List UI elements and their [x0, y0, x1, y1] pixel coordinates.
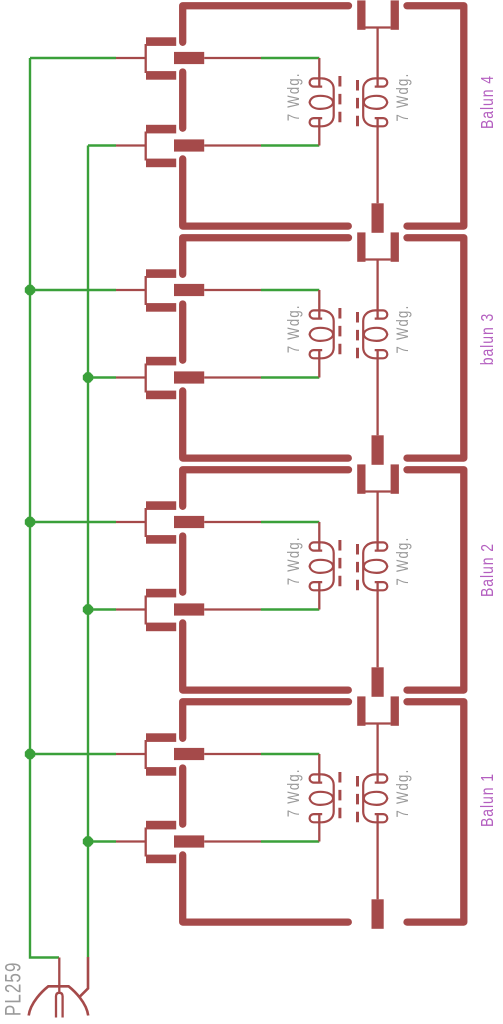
- svg-text:7 Wdg.: 7 Wdg.: [284, 536, 303, 585]
- Balun 4: tap connector 1 bracket bottom bar: [146, 71, 176, 80]
- Balun 1: transformer core dashed line right: [356, 776, 359, 823]
- Balun 4: net wire connector 1 to primary winding (green): [261, 57, 319, 59]
- Balun 2: primary winding bottom pin wire: [318, 583, 320, 610]
- Balun 2: wire from secondary winding to output tab: [376, 583, 378, 668]
- Balun 2: net wire from trunk to tap connector 1 (green): [30, 521, 116, 523]
- balun 3: tap connector 1 left pin wire: [116, 289, 146, 291]
- Balun 1: frame bus right side (top-right, right, bottom-right): [407, 702, 464, 922]
- Balun 2: tap connector 1 male tab: [174, 516, 204, 528]
- Balun 2: input socket bracket right bar (top connector): [391, 464, 399, 493]
- balun 3: tap connector 2 bracket top bar: [146, 357, 176, 366]
- Balun 1: input socket bracket base line: [366, 722, 391, 724]
- balun 3: tap connector 2 left pin wire: [116, 376, 146, 378]
- Balun 2: frame bus right side (top-right, right, bottom-right): [407, 470, 464, 690]
- balun 3: frame bus left lower segment and bottom-left: [183, 391, 349, 458]
- Balun 1: net wire from trunk to tap connector 2 (green): [88, 840, 116, 842]
- balun 3: tap connector 2 right pin wire: [204, 376, 261, 378]
- Balun 2: tap connector 2 left pin wire: [116, 608, 146, 610]
- balun 3: transformer core dashed line right: [356, 312, 359, 359]
- balun 3: output male tab (bottom connector): [372, 435, 384, 465]
- Balun 4: frame bus top-left and left side upper segment: [183, 6, 349, 43]
- Balun 1: tap connector 1 bracket bottom bar: [146, 767, 176, 776]
- Balun 4: transformer primary winding loops: [310, 78, 334, 126]
- svg-text:7 Wdg.: 7 Wdg.: [393, 305, 412, 354]
- Balun 4: net wire from trunk to tap connector 1 (green): [30, 57, 116, 59]
- balun 3: tap connector 1 male tab: [174, 284, 204, 296]
- Balun 2: transformer core dashed line right: [356, 544, 359, 591]
- Balun 1: tap connector 1 right pin wire: [204, 753, 261, 755]
- junction on left trunk at Balun 1 upper tap: [25, 749, 35, 759]
- Balun 1: transformer secondary winding loops: [363, 774, 387, 822]
- balun 3: net wire connector 1 to primary winding (green): [261, 289, 319, 291]
- junction on inner trunk at Balun 2 lower tap: [83, 604, 93, 614]
- Balun 4: frame bus left middle segment: [179, 72, 186, 128]
- Balun 2: tap connector 1 left pin wire: [116, 521, 146, 523]
- PL259 shell pin wire: [80, 957, 88, 997]
- Balun 4: frame bus left lower segment and bottom-left: [183, 159, 349, 226]
- Balun 4: tap connector 2 male tab: [174, 139, 204, 151]
- balun 3: transformer secondary winding loops: [363, 310, 387, 358]
- Balun 1: primary winding bottom pin wire: [318, 815, 320, 842]
- Balun 4: transformer core dashed line right: [356, 80, 359, 127]
- balun 3: tap connector 2 male tab: [174, 371, 204, 383]
- Balun 1: tap connector 1 male tab: [174, 748, 204, 760]
- Balun 4: tap connector 2 bracket top bar: [146, 125, 176, 134]
- Balun 1: tap connector 2 male tab: [174, 835, 204, 847]
- balun 3: primary winding bottom pin wire: [318, 351, 320, 378]
- Balun 1: tap connector 1 bracket side line: [145, 740, 147, 769]
- Balun 1: tap connector 2 bracket side line: [145, 828, 147, 857]
- Balun 2: frame bus left lower segment and bottom-left: [183, 623, 349, 690]
- Balun 1: tap connector 2 right pin wire: [204, 840, 261, 842]
- balun 3: net wire from trunk to tap connector 2 (green): [88, 376, 116, 378]
- Balun 2: transformer secondary winding loops: [363, 542, 387, 590]
- Balun 4: primary winding bottom pin wire: [318, 119, 320, 146]
- Balun 1: net wire from trunk to tap connector 1 (green): [30, 753, 116, 755]
- Balun 1: net wire connector 2 to primary winding (green): [261, 840, 319, 842]
- svg-text:7 Wdg.: 7 Wdg.: [393, 769, 412, 818]
- Balun 1: input socket bracket right bar (top connector): [391, 696, 399, 725]
- Balun 4: net wire connector 2 to primary winding (green): [261, 144, 319, 146]
- PL259 center pin sleeve: [56, 993, 63, 1018]
- balun 3: input socket bracket left bar (top connector): [357, 232, 365, 261]
- net trunk from PL259 center pin up left side (green): [30, 58, 59, 958]
- Balun 4: primary winding top pin wire: [318, 58, 320, 86]
- Balun 4: tap connector 1 bracket side line: [145, 44, 147, 73]
- Balun 4: wire from input socket to secondary winding: [376, 28, 378, 87]
- svg-text:7 Wdg.: 7 Wdg.: [393, 537, 412, 586]
- Balun 1: tap connector 2 bracket top bar: [146, 821, 176, 830]
- Balun 1: input socket bracket left bar (top connector): [357, 696, 365, 725]
- Balun 1: frame bus left middle segment: [179, 768, 186, 824]
- Balun 1: tap connector 1 bracket top bar: [146, 733, 176, 742]
- Balun 2: wire from input socket to secondary winding: [376, 492, 378, 551]
- Balun 4: wire from secondary winding to output tab: [376, 119, 378, 204]
- Balun 2: tap connector 1 bracket bottom bar: [146, 535, 176, 544]
- Balun 1: wire from secondary winding to output tab: [376, 815, 378, 900]
- balun 3: tap connector 1 bracket top bar: [146, 269, 176, 278]
- svg-text:7 Wdg.: 7 Wdg.: [393, 73, 412, 122]
- balun 3: frame bus left middle segment: [179, 304, 186, 360]
- Balun 4: tap connector 1 left pin wire: [116, 57, 146, 59]
- Balun 2: tap connector 2 male tab: [174, 603, 204, 615]
- balun 3: transformer core dashed line left: [338, 308, 341, 355]
- junction on inner trunk at Balun 1 lower tap: [83, 836, 93, 846]
- Balun 1: net wire connector 1 to primary winding (green): [261, 753, 319, 755]
- svg-text:7 Wdg.: 7 Wdg.: [284, 304, 303, 353]
- Balun 4: transformer core dashed line left: [338, 76, 341, 123]
- svg-text:Balun 2: Balun 2: [479, 543, 498, 597]
- Balun 1: tap connector 2 bracket bottom bar: [146, 855, 176, 864]
- svg-text:Balun 4: Balun 4: [479, 75, 498, 129]
- Balun 2: tap connector 2 bracket bottom bar: [146, 623, 176, 632]
- svg-text:Balun 1: Balun 1: [479, 773, 498, 827]
- Balun 2: primary winding top pin wire: [318, 522, 320, 550]
- balun 3: tap connector 1 bracket side line: [145, 276, 147, 305]
- balun 3: input socket bracket right bar (top connector): [391, 232, 399, 261]
- net trunk from PL259 shell up (green, inner): [87, 146, 89, 958]
- svg-text:balun 3: balun 3: [479, 313, 498, 366]
- Balun 2: net wire connector 2 to primary winding (green): [261, 608, 319, 610]
- balun 3: frame bus top-left and left side upper segment: [183, 238, 349, 275]
- Balun 2: input socket bracket left bar (top connector): [357, 464, 365, 493]
- junction on left trunk at balun 3 upper tap: [25, 285, 35, 295]
- Balun 4: tap connector 2 right pin wire: [204, 144, 261, 146]
- Balun 4: output male tab (bottom connector): [372, 203, 384, 233]
- Balun 4: frame bus right side (top-right, right, bottom-right): [407, 6, 464, 226]
- Balun 4: tap connector 1 bracket top bar: [146, 37, 176, 46]
- balun 3: tap connector 1 bracket bottom bar: [146, 303, 176, 312]
- balun 3: wire from input socket to secondary winding: [376, 260, 378, 319]
- balun 3: net wire connector 2 to primary winding (green): [261, 376, 319, 378]
- Balun 2: net wire connector 1 to primary winding (green): [261, 521, 319, 523]
- balun 3: tap connector 2 bracket bottom bar: [146, 391, 176, 400]
- Balun 4: net wire from trunk to tap connector 2 (green): [88, 144, 116, 146]
- balun 3: wire from secondary winding to output tab: [376, 351, 378, 436]
- Balun 2: tap connector 2 right pin wire: [204, 608, 261, 610]
- Balun 2: tap connector 1 right pin wire: [204, 521, 261, 523]
- balun 3: frame bus right side (top-right, right, bottom-right): [407, 238, 464, 458]
- Balun 2: tap connector 2 bracket top bar: [146, 589, 176, 598]
- Balun 2: output male tab (bottom connector): [372, 667, 384, 697]
- Balun 4: tap connector 1 male tab: [174, 52, 204, 64]
- Balun 2: tap connector 1 bracket side line: [145, 508, 147, 537]
- balun 3: net wire from trunk to tap connector 1 (green): [30, 289, 116, 291]
- Balun 1: tap connector 1 left pin wire: [116, 753, 146, 755]
- Balun 4: input socket bracket right bar (top connector): [391, 0, 399, 29]
- Balun 2: input socket bracket base line: [366, 490, 391, 492]
- Balun 2: net wire from trunk to tap connector 2 (green): [88, 608, 116, 610]
- Balun 1: frame bus top-left and left side upper segment: [183, 702, 349, 739]
- Balun 2: tap connector 1 bracket top bar: [146, 501, 176, 510]
- balun 3: input socket bracket base line: [366, 258, 391, 260]
- svg-text:7 Wdg.: 7 Wdg.: [284, 768, 303, 817]
- Balun 1: transformer core dashed line left: [338, 772, 341, 819]
- svg-text:7 Wdg.: 7 Wdg.: [284, 72, 303, 121]
- Balun 4: tap connector 1 right pin wire: [204, 57, 261, 59]
- balun 3: primary winding top pin wire: [318, 290, 320, 318]
- Balun 4: tap connector 2 bracket side line: [145, 132, 147, 161]
- Balun 2: transformer core dashed line left: [338, 540, 341, 587]
- PL259 center pin wire: [58, 958, 60, 994]
- Balun 2: frame bus top-left and left side upper segment: [183, 470, 349, 507]
- Balun 2: frame bus left middle segment: [179, 536, 186, 592]
- PL259 shell dome: [29, 986, 88, 1015]
- Balun 1: tap connector 2 left pin wire: [116, 840, 146, 842]
- Balun 2: transformer primary winding loops: [310, 542, 334, 590]
- Balun 2: tap connector 2 bracket side line: [145, 596, 147, 625]
- Balun 4: input socket bracket left bar (top connector): [357, 0, 365, 29]
- Balun 1: frame bus left lower segment and bottom-left: [183, 855, 349, 922]
- balun 3: transformer primary winding loops: [310, 310, 334, 358]
- Balun 1: transformer primary winding loops: [310, 774, 334, 822]
- Balun 1: primary winding top pin wire: [318, 754, 320, 782]
- Balun 4: tap connector 2 left pin wire: [116, 144, 146, 146]
- Balun 1: output male tab (bottom connector): [372, 899, 384, 929]
- Balun 4: tap connector 2 bracket bottom bar: [146, 159, 176, 168]
- junction on inner trunk at balun 3 lower tap: [83, 372, 93, 382]
- Balun 1: wire from input socket to secondary winding: [376, 724, 378, 783]
- Balun 4: input socket bracket base line: [366, 26, 391, 28]
- svg-text:PL259: PL259: [1, 961, 26, 1016]
- Balun 4: transformer secondary winding loops: [363, 78, 387, 126]
- balun 3: tap connector 2 bracket side line: [145, 364, 147, 393]
- junction on left trunk at Balun 2 upper tap: [25, 517, 35, 527]
- balun 3: tap connector 1 right pin wire: [204, 289, 261, 291]
